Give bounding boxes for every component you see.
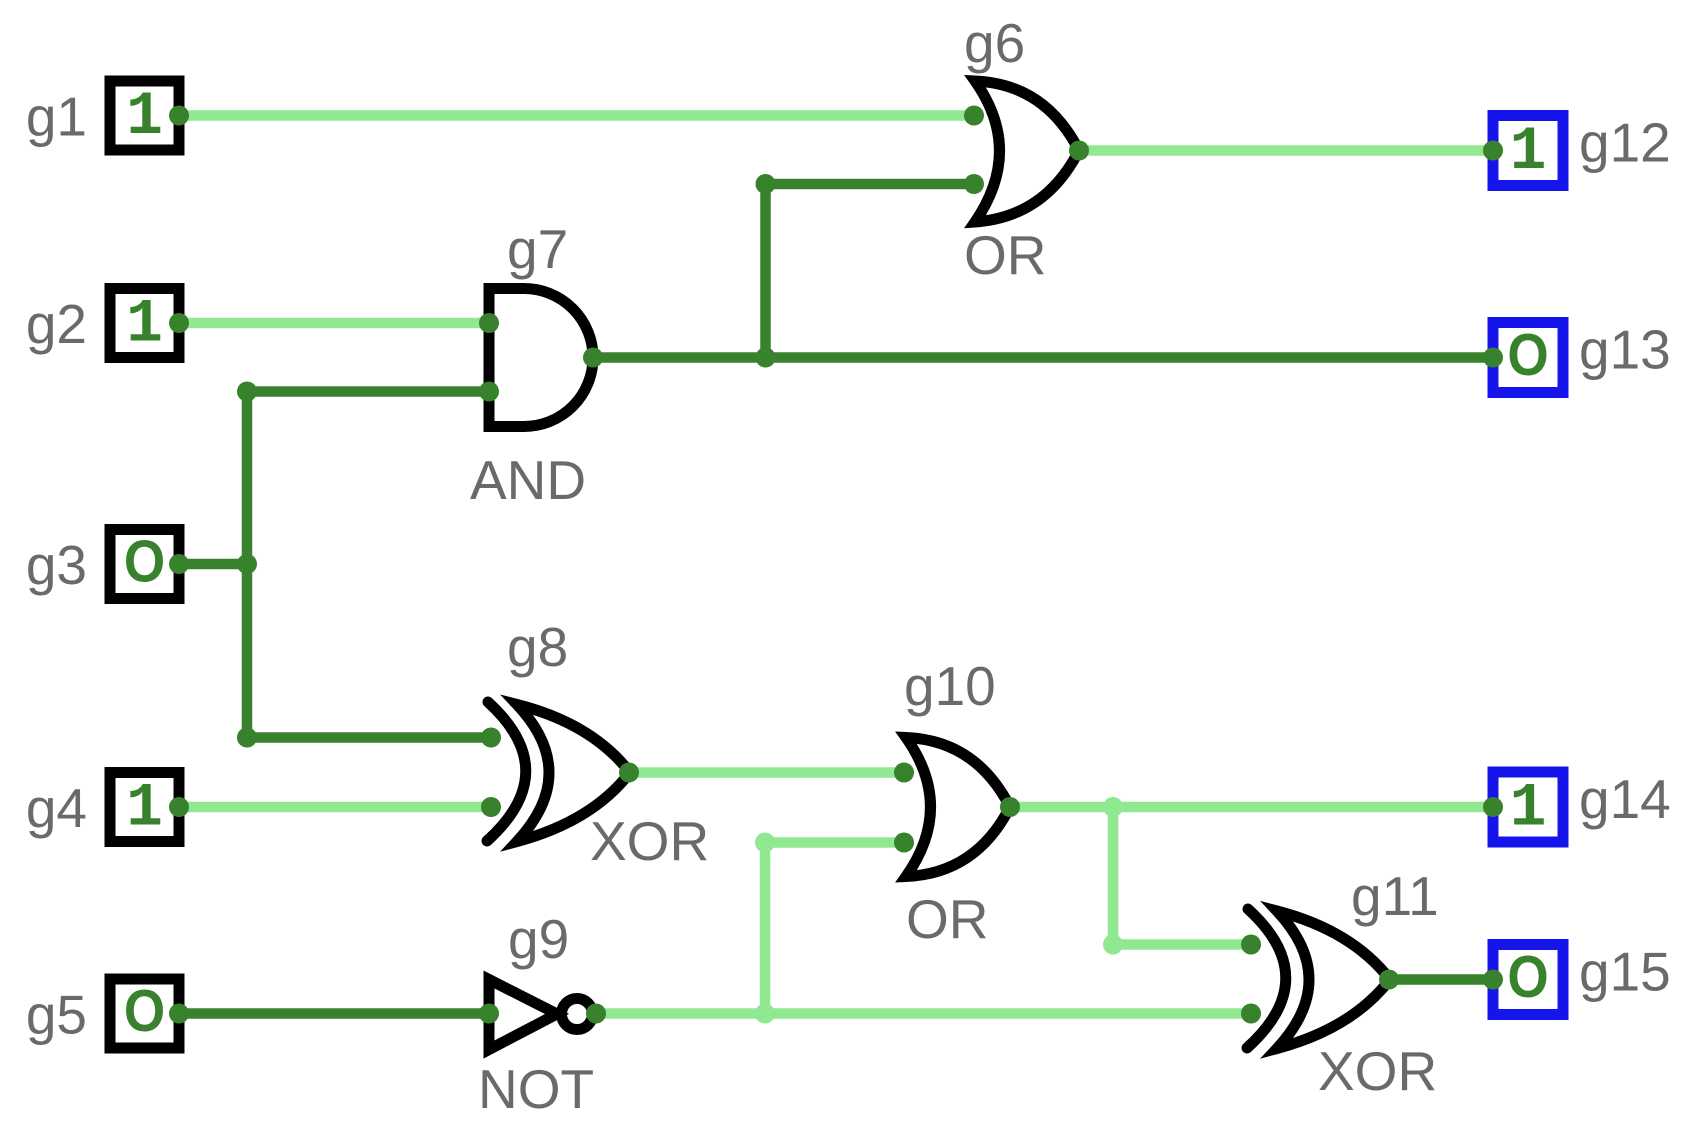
label NOT of g9: [478, 1058, 594, 1120]
svg-text:g1: g1: [26, 86, 87, 148]
input box g3: [110, 528, 179, 599]
pin dot g3 output: [169, 554, 189, 574]
output box g15: [1493, 943, 1563, 1014]
label g5: [26, 984, 87, 1046]
pin dot g14 input: [1483, 797, 1503, 817]
pin dot g7 input1: [479, 313, 499, 333]
xor-gate g8: [487, 702, 630, 842]
wire net g3 to g7 input2 and g8 input1 (logic 0): [179, 392, 491, 738]
svg-text:NOT: NOT: [478, 1058, 594, 1120]
svg-text:g6: g6: [964, 12, 1025, 74]
pin dot g11 output: [1379, 970, 1399, 990]
wire net g2 to g7 input1 (logic 1): [179, 318, 489, 329]
label g6: [964, 12, 1025, 74]
label g3: [26, 534, 87, 596]
svg-text:O: O: [124, 977, 165, 1043]
svg-text:g2: g2: [26, 293, 87, 355]
pin dot g8 input2: [481, 797, 501, 817]
svg-text:1: 1: [1510, 118, 1547, 187]
pin dot g2 output: [169, 313, 189, 333]
label g9: [508, 908, 569, 970]
pin dot g11 input2: [1241, 1004, 1261, 1024]
output box g12: [1493, 116, 1563, 188]
input box g2: [110, 289, 179, 360]
svg-text:XOR: XOR: [1318, 1040, 1437, 1102]
svg-text:g5: g5: [26, 984, 87, 1046]
label g1: [26, 86, 87, 148]
svg-text:g9: g9: [508, 908, 569, 970]
svg-text:OR: OR: [964, 224, 1047, 286]
pin dot g9 input: [479, 1004, 499, 1024]
svg-text:1: 1: [126, 775, 163, 844]
pin dot g9 output: [586, 1004, 606, 1024]
label g13: [1579, 319, 1671, 381]
pin dot g4 output: [169, 797, 189, 817]
pin dot g11 input1: [1241, 935, 1261, 955]
pin dot g10 input2: [894, 833, 914, 853]
corner dot net g9out at x765 y842: [755, 833, 775, 853]
corner dot net g3 at x247 y737: [237, 728, 257, 748]
svg-text:XOR: XOR: [590, 810, 709, 872]
svg-text:1: 1: [1510, 775, 1547, 844]
output box g13: [1493, 321, 1563, 392]
svg-text:g14: g14: [1579, 768, 1671, 830]
pin dot g5 output: [169, 1004, 189, 1024]
corner dot net g10out at x1113 y944: [1103, 935, 1123, 955]
label g15: [1579, 941, 1671, 1003]
label g7: [507, 218, 568, 280]
pin dot g1 output: [169, 106, 189, 126]
input box g5: [110, 977, 179, 1048]
svg-text:O: O: [1507, 321, 1548, 387]
junction dot net g9out at x765 y1013: [755, 1004, 775, 1024]
svg-text:g12: g12: [1579, 112, 1671, 174]
wire net g5 to g9 input (logic 0): [179, 1008, 489, 1019]
svg-text:1: 1: [126, 83, 163, 152]
label OR of g10: [906, 888, 989, 950]
pin dot g6 output: [1069, 141, 1089, 161]
pin dot g13 input: [1483, 348, 1503, 368]
svg-text:g11: g11: [1351, 865, 1439, 927]
pin dot g6 input1: [964, 106, 984, 126]
svg-text:g4: g4: [26, 777, 87, 839]
xor-gate g11: [1247, 909, 1390, 1049]
or-gate g10: [906, 738, 1010, 877]
wire net g9 output to g11 input2 and g10 input2 (logic 1): [596, 843, 1251, 1014]
corner dot net g7out at x765 y184: [756, 174, 776, 194]
label OR of g6: [964, 224, 1047, 286]
svg-text:O: O: [1507, 943, 1548, 1009]
svg-text:1: 1: [126, 291, 163, 360]
label g8: [507, 616, 568, 678]
label g11: [1351, 865, 1439, 927]
svg-text:g7: g7: [507, 218, 568, 280]
label g14: [1579, 768, 1671, 830]
output box g14: [1493, 772, 1563, 844]
svg-text:OR: OR: [906, 888, 989, 950]
label g12: [1579, 112, 1671, 174]
pin dot g8 input1: [481, 728, 501, 748]
wire net g1 to g6 input1 (logic 1): [179, 110, 974, 121]
label g10: [904, 655, 996, 717]
corner dot net g3 at x247 y391: [237, 382, 257, 402]
svg-text:AND: AND: [470, 449, 586, 511]
pin dot g6 input2: [964, 174, 984, 194]
label AND of g7: [470, 449, 586, 511]
svg-text:g13: g13: [1579, 319, 1671, 381]
wire net g6 output to g12 (logic 1): [1079, 145, 1493, 156]
not-gate g9: [489, 980, 593, 1050]
pin dot g10 input1: [894, 763, 914, 783]
pin dot g15 input: [1483, 970, 1503, 990]
input box g1: [110, 81, 179, 152]
or-gate g6: [975, 81, 1079, 222]
input box g4: [110, 773, 179, 844]
label XOR of g11: [1318, 1040, 1437, 1102]
wire net g7 output to g13 and g6 input2 (logic 0): [593, 184, 1493, 358]
wire net g10 output to g14 and g11 input1 (logic 1): [1010, 807, 1493, 945]
and-gate g7: [489, 289, 593, 427]
svg-text:g3: g3: [26, 534, 87, 596]
wire net g4 to g8 input2 (logic 1): [179, 802, 491, 813]
junction dot net g7out at x765: [756, 348, 776, 368]
pin dot g7 input2: [479, 382, 499, 402]
junction dot net g3 at x247 y564: [237, 554, 257, 574]
svg-text:O: O: [124, 528, 165, 594]
pin dot g12 input: [1483, 141, 1503, 161]
pin dot g10 output: [1000, 797, 1020, 817]
svg-text:g8: g8: [507, 616, 568, 678]
label g2: [26, 293, 87, 355]
wire net g8 output to g10 input1 (logic 1): [629, 767, 904, 778]
svg-text:g15: g15: [1579, 941, 1671, 1003]
wire net g11 output to g15 (logic 0): [1389, 974, 1493, 985]
label XOR of g8: [590, 810, 709, 872]
svg-text:g10: g10: [904, 655, 996, 717]
junction dot net g10out at x1113 y807: [1103, 797, 1123, 817]
label g4: [26, 777, 87, 839]
pin dot g7 output: [583, 348, 603, 368]
pin dot g8 output: [619, 763, 639, 783]
